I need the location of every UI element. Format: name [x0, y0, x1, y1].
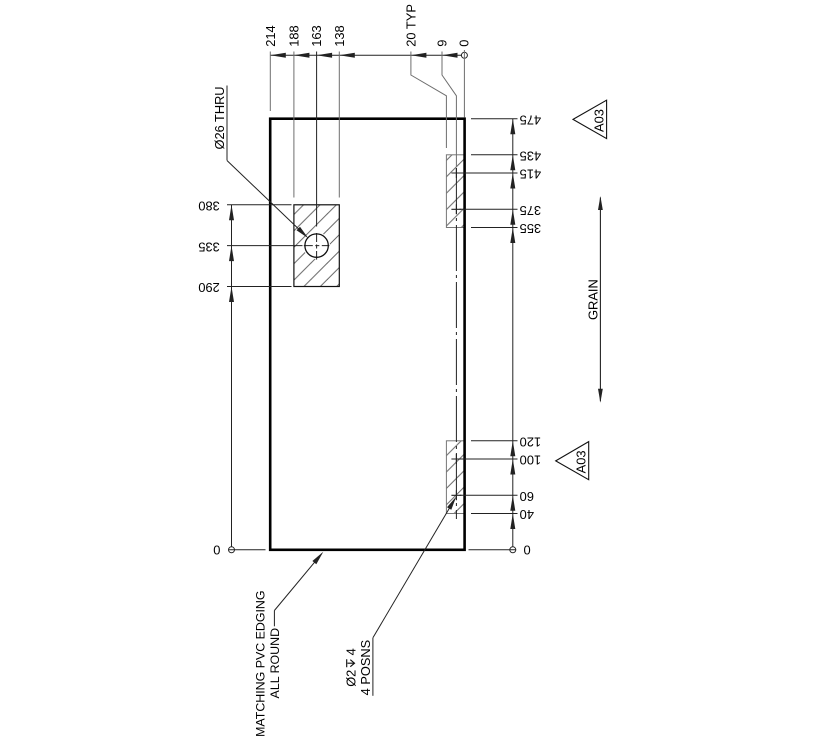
svg-text:355: 355: [520, 221, 542, 236]
right dim arrow 355: [510, 228, 515, 244]
extension line 214: [269, 52, 271, 112]
svg-text:Ø2: Ø2: [343, 670, 358, 687]
leader Ø26 arrow: [297, 227, 309, 239]
top dim arrow 163: [317, 53, 333, 58]
right ext line 435: [471, 154, 518, 156]
left ext line 380: [227, 204, 292, 206]
revision triangle A03 bottom: [556, 442, 589, 480]
extension line 138: [338, 52, 340, 198]
svg-text:0: 0: [524, 543, 531, 558]
left dim arrow 335: [229, 246, 234, 262]
leader pvc tail: [273, 611, 275, 627]
grain arrow up: [598, 196, 603, 210]
leader pvc line: [274, 554, 321, 611]
svg-text:138: 138: [332, 25, 347, 47]
right ext line 475: [471, 118, 518, 120]
hatched hinge plate block: [294, 205, 339, 287]
top origin circle: [461, 52, 467, 58]
right dim arrow 40: [510, 514, 515, 530]
leader posns arrow: [447, 497, 456, 510]
top dimension line: [270, 54, 461, 56]
right dimension line: [512, 119, 514, 547]
left ext line 335: [227, 245, 303, 247]
top dim arrow 20: [411, 53, 427, 58]
leader Ø26 line: [227, 161, 306, 236]
right ext line 355: [471, 227, 518, 229]
right ext line 375: [460, 208, 518, 210]
note matching pvc edging: [254, 590, 283, 736]
grain arrow down: [598, 389, 603, 403]
top dim arrow 138: [339, 53, 355, 58]
right ext line 40: [471, 513, 518, 515]
note 4 posns: [343, 638, 373, 696]
svg-text:475: 475: [520, 112, 542, 127]
svg-text:ALL ROUND: ALL ROUND: [268, 628, 282, 699]
drill cross at y495.3: [451, 490, 461, 500]
svg-text:214: 214: [263, 25, 278, 47]
bore centerline horizontal: [304, 245, 330, 247]
right ext line 120: [471, 440, 518, 442]
svg-text:335: 335: [198, 239, 220, 254]
leader pvc arrow: [312, 552, 323, 564]
right dim arrow 415: [510, 173, 515, 189]
hole centerline right edge: [455, 168, 457, 519]
left dim arrow 380: [229, 205, 234, 221]
extension line 163 centerline: [316, 52, 318, 227]
svg-text:380: 380: [198, 199, 220, 214]
svg-text:4: 4: [343, 648, 358, 655]
grain direction line: [599, 198, 601, 402]
svg-text:A03: A03: [591, 109, 606, 132]
left ext line 290: [227, 286, 292, 288]
svg-text:435: 435: [520, 149, 542, 164]
right ext line 100: [460, 458, 518, 460]
jogged extension line 20 TYP: [411, 52, 447, 149]
bore circle Ø26: [305, 234, 328, 257]
drill cross at y209.3: [451, 204, 461, 214]
leader posns line: [373, 499, 455, 638]
top dim arrow 188: [294, 53, 310, 58]
svg-text:163: 163: [309, 25, 324, 47]
svg-text:9: 9: [435, 40, 450, 47]
right origin circle: [510, 547, 516, 553]
svg-text:120: 120: [520, 435, 542, 450]
svg-text:A03: A03: [574, 450, 589, 473]
svg-text:GRAIN: GRAIN: [585, 279, 600, 320]
svg-text:188: 188: [286, 25, 301, 47]
drill cross at y459.0: [451, 454, 461, 464]
right dim arrow 435: [510, 155, 515, 171]
note Ø26 THRU with underline: [212, 86, 227, 161]
extension line 188: [293, 52, 295, 198]
right dim arrow 475: [510, 119, 515, 135]
right ext line 60: [460, 494, 518, 496]
right dim arrow 60: [510, 495, 515, 511]
hatched edge strip bottom: [446, 441, 464, 514]
svg-text:40: 40: [520, 507, 534, 522]
top dim arrow 214: [270, 53, 286, 58]
right dim arrow 120: [510, 441, 515, 457]
svg-text:0: 0: [213, 543, 220, 558]
svg-text:415: 415: [520, 167, 542, 182]
svg-text:60: 60: [520, 489, 534, 504]
svg-text:290: 290: [198, 280, 220, 295]
svg-text:Ø26 THRU: Ø26 THRU: [212, 86, 227, 149]
right ext line 0: [469, 549, 516, 551]
svg-text:375: 375: [520, 203, 542, 218]
left dimension line: [231, 205, 233, 547]
bore centerline vertical: [316, 233, 318, 260]
revision triangle A03 top: [573, 100, 607, 138]
svg-text:0: 0: [457, 40, 472, 47]
right dim arrow 375: [510, 209, 515, 225]
svg-text:MATCHING PVC EDGING: MATCHING PVC EDGING: [254, 590, 268, 736]
left ext line 0: [229, 549, 266, 551]
right ext line 415: [460, 172, 518, 174]
bore circle white island: [303, 232, 330, 259]
svg-text:100: 100: [520, 453, 542, 468]
svg-text:20 TYP: 20 TYP: [403, 4, 418, 47]
right dim arrow 100: [510, 459, 515, 475]
jogged extension line 9: [442, 52, 456, 167]
top dim arrow 9: [442, 53, 458, 58]
panel outline: [270, 119, 464, 550]
extension line 0 top: [463, 50, 465, 117]
drill cross at y173.0: [451, 168, 461, 178]
hatched edge strip top: [446, 155, 464, 228]
left origin circle: [229, 547, 235, 553]
svg-text:4 POSNS: 4 POSNS: [358, 640, 373, 695]
left dim arrow 290: [229, 287, 234, 303]
